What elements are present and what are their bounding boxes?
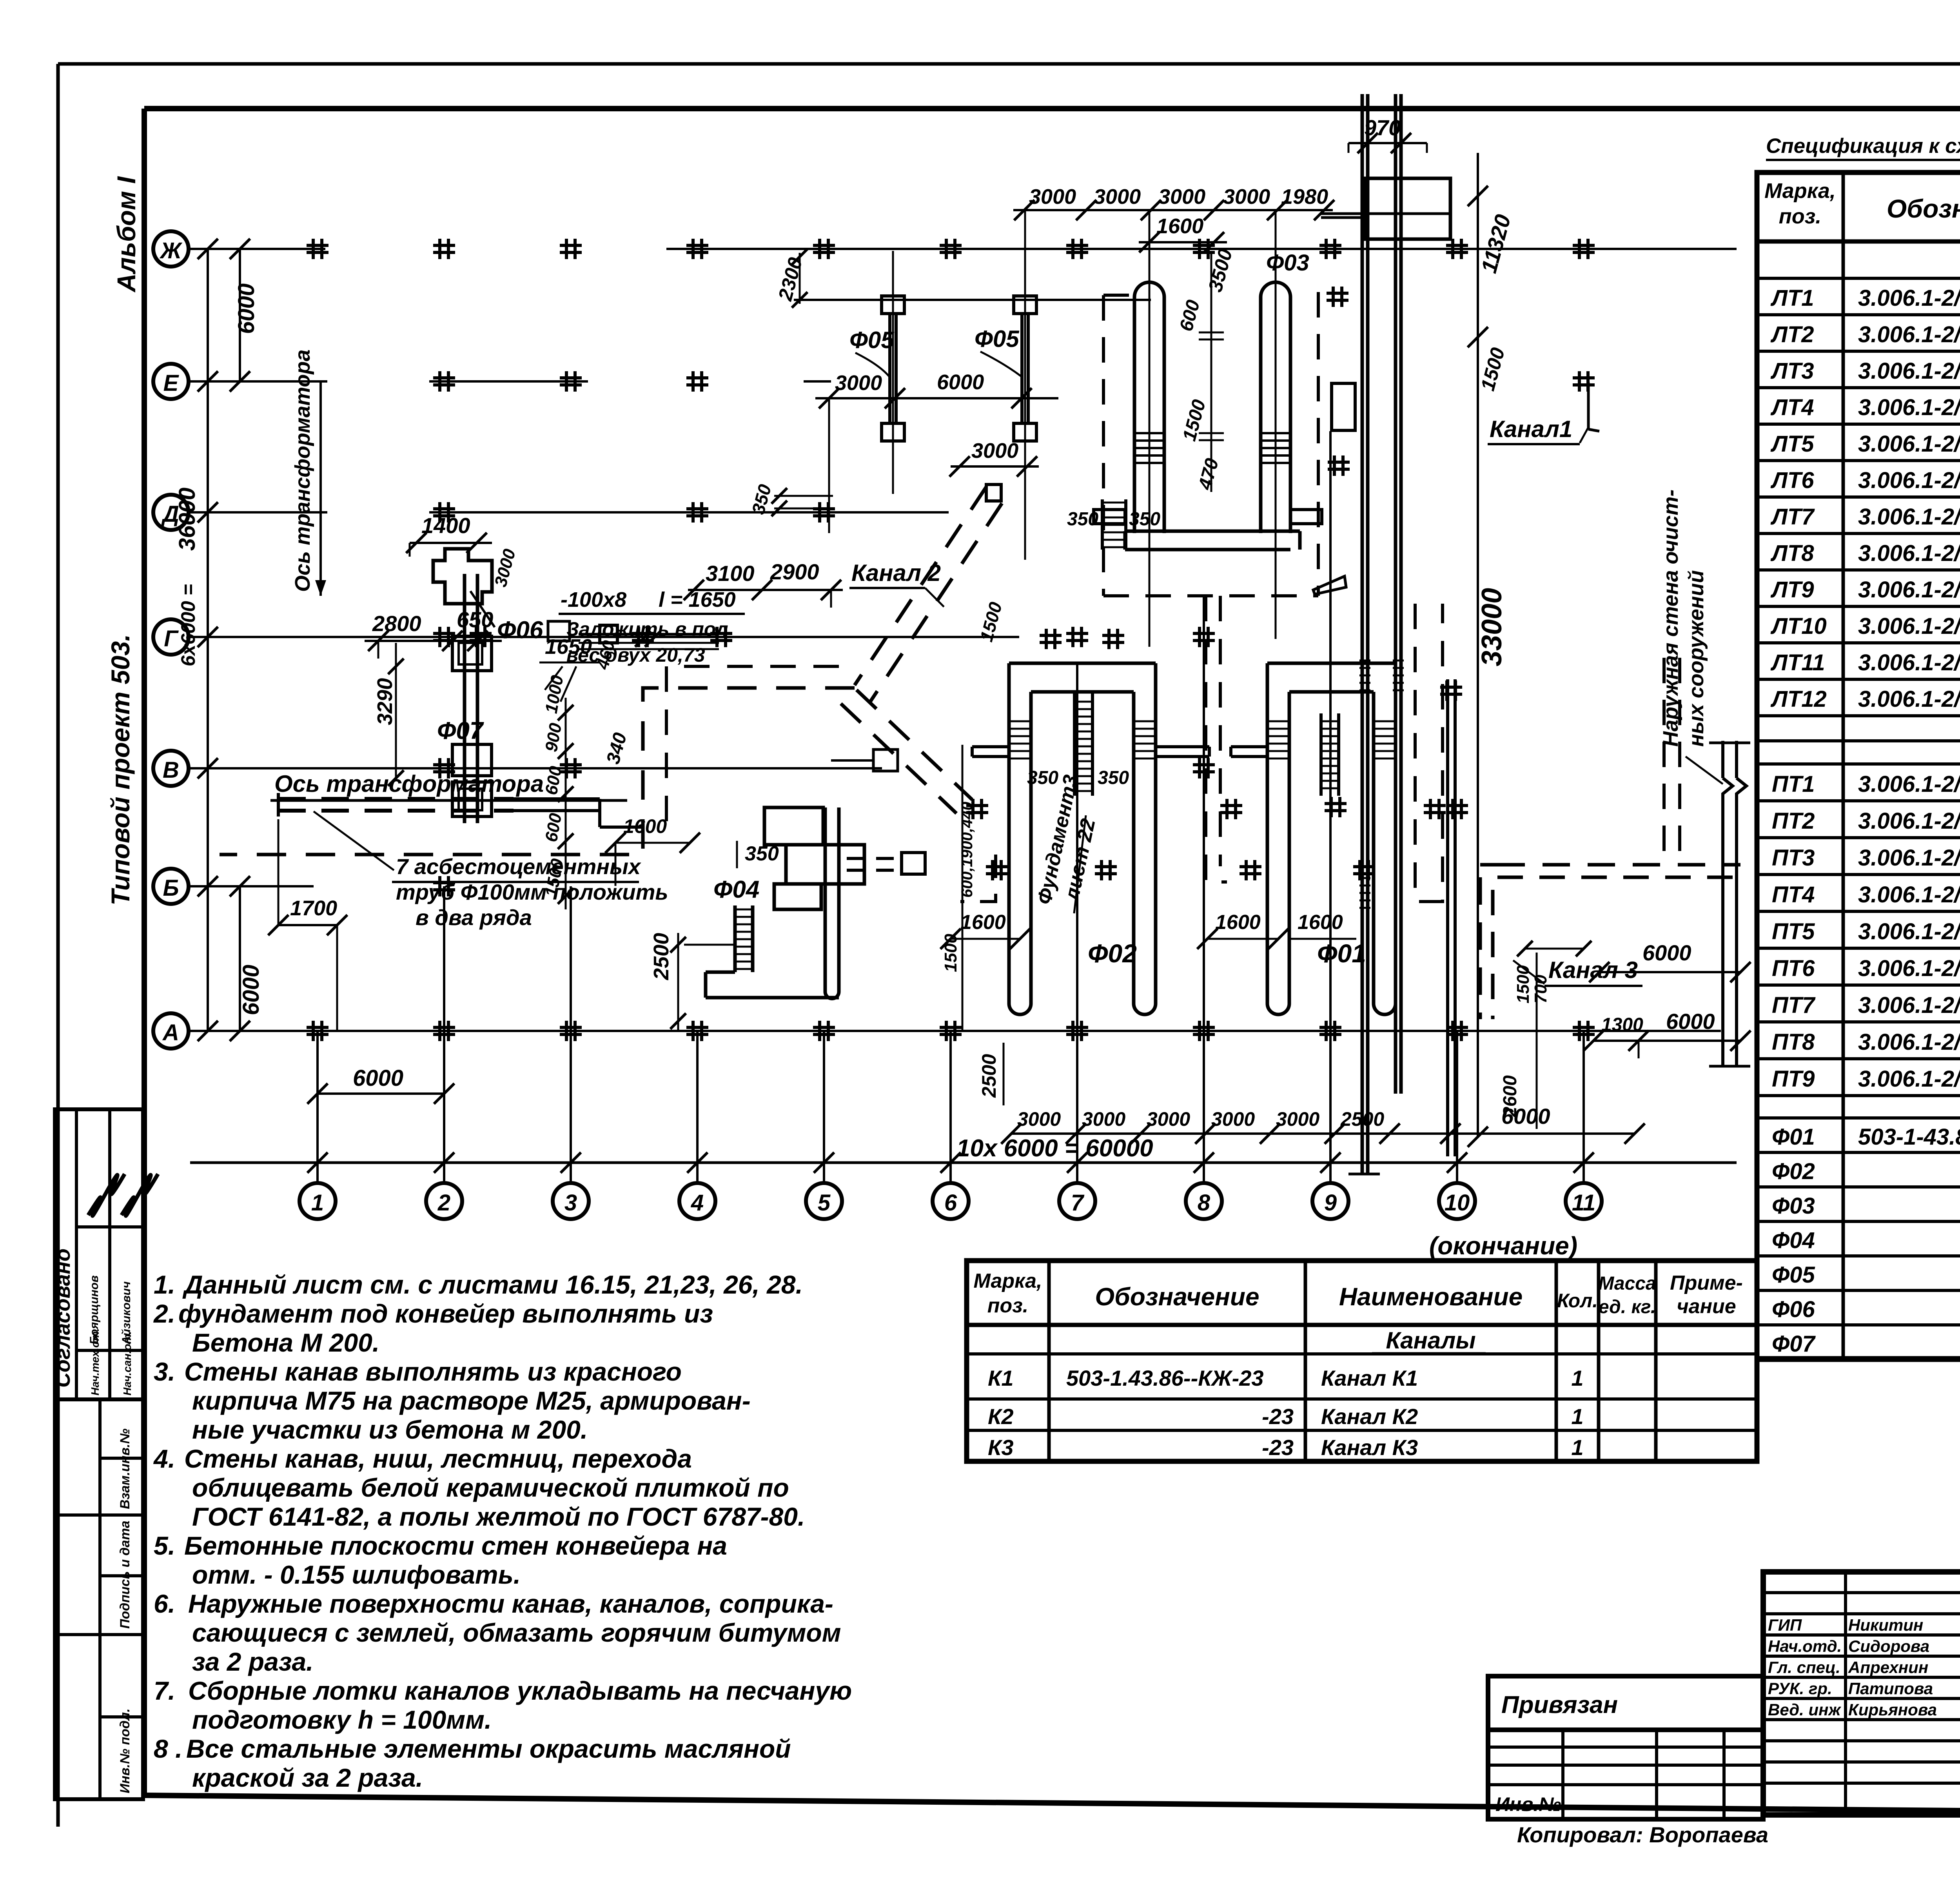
svg-text:поз.: поз. (987, 1294, 1029, 1317)
axis row Ж (153, 231, 189, 267)
svg-text:Каналы: Каналы (1386, 1327, 1475, 1354)
axis column 6 (933, 1183, 969, 1219)
svg-text:350: 350 (1067, 509, 1098, 530)
svg-text:11: 11 (1572, 1190, 1595, 1216)
svg-text:ЛТ3: ЛТ3 (1770, 358, 1814, 384)
svg-text:970: 970 (1364, 115, 1401, 140)
svg-text:Вед. инж: Вед. инж (1768, 1700, 1842, 1719)
outer page border (58, 62, 1960, 66)
svg-text:Б: Б (163, 875, 179, 901)
svg-text:6000: 6000 (1642, 940, 1691, 965)
svg-text:503-1.43.86--КЖ-23: 503-1.43.86--КЖ-23 (1066, 1366, 1264, 1390)
svg-text:Все стальные элементы окрас: Все стальные элементы окрасить масляной (186, 1734, 791, 1763)
row dimension chain (207, 249, 209, 1031)
svg-text:ЛТ4: ЛТ4 (1770, 395, 1814, 420)
svg-text:ПТ4: ПТ4 (1772, 882, 1815, 907)
svg-text:3.006.1-2/82 вып. 1-2: 3.006.1-2/82 вып. 1-2 (1858, 808, 1960, 834)
svg-text:ные участки из бетона м 20: ные участки из бетона м 200. (192, 1415, 588, 1444)
axis column 7 (1059, 1183, 1095, 1219)
dashed channel outline left (Канал2 corridor) (220, 688, 855, 855)
svg-text:Масса: Масса (1598, 1273, 1656, 1294)
foundation Ф05 (1020, 314, 1024, 423)
axis column 5 (806, 1183, 842, 1219)
svg-text:Обозначение: Обозначение (1887, 194, 1960, 223)
svg-text:К3: К3 (988, 1435, 1014, 1460)
svg-text:Никитин: Никитин (1848, 1616, 1923, 1634)
svg-text:3: 3 (564, 1190, 577, 1216)
svg-text:Спецификация к схеме расположе: Спецификация к схеме расположения элемен… (1766, 134, 1960, 158)
svg-text:Ф01: Ф01 (1317, 939, 1366, 968)
svg-text:ЛТ1: ЛТ1 (1770, 285, 1814, 311)
svg-text:3.006.1-2/82 вып. 1-1: 3.006.1-2/82 вып. 1-1 (1858, 358, 1960, 384)
svg-text:ЛТ8: ЛТ8 (1770, 541, 1814, 566)
svg-text:Альбом I: Альбом I (112, 176, 141, 293)
svg-text:10: 10 (1445, 1190, 1470, 1216)
svg-text:-100х8: -100х8 (561, 588, 626, 611)
svg-text:ПТ9: ПТ9 (1772, 1066, 1815, 1092)
svg-text:650: 650 (457, 607, 493, 632)
svg-text:ПТ8: ПТ8 (1772, 1029, 1815, 1055)
svg-text:33000: 33000 (1476, 588, 1508, 666)
svg-text:Инв.№ подл.: Инв.№ подл. (118, 1708, 132, 1793)
svg-text:2500: 2500 (1340, 1108, 1384, 1130)
svg-text:ных сооружений: ных сооружений (1684, 570, 1708, 747)
svg-text:ЛТ7: ЛТ7 (1770, 504, 1815, 530)
dashed rect around Ф02/Ф01 (960, 855, 996, 902)
svg-text:l = 1650: l = 1650 (659, 588, 736, 611)
svg-text:ПТ3: ПТ3 (1772, 845, 1815, 871)
svg-text:Кол.: Кол. (1557, 1290, 1598, 1312)
Канал2 diagonal dashed (855, 487, 986, 685)
svg-text:краской за 2 раза.: краской за 2 раза. (192, 1763, 423, 1792)
foundation Ф04 (764, 807, 823, 845)
svg-text:6000: 6000 (1666, 1009, 1715, 1034)
svg-text:7.: 7. (154, 1676, 175, 1705)
svg-text:Бетона М 200.: Бетона М 200. (192, 1328, 379, 1357)
svg-text:фундамент под конвейер выпо: фундамент под конвейер выполнять из (178, 1299, 713, 1328)
drawing frame (144, 106, 1960, 111)
Ф03 U-bottom (1125, 530, 1300, 533)
svg-text:поз.: поз. (1779, 205, 1822, 228)
svg-text:6000: 6000 (234, 283, 259, 334)
svg-text:36000: 36000 (174, 488, 200, 551)
foundation Ф05 (888, 314, 891, 423)
svg-text:3000: 3000 (1147, 1108, 1190, 1130)
svg-text:ЛТ11: ЛТ11 (1770, 650, 1825, 675)
foundation Ф02 (1007, 692, 1011, 1003)
svg-text:Взам.инв.№: Взам.инв.№ (118, 1428, 132, 1509)
svg-text:1600: 1600 (1298, 911, 1343, 934)
axis row Б (153, 869, 189, 904)
svg-text:Инв.№: Инв.№ (1495, 1793, 1561, 1815)
svg-text:за 2 раза.: за 2 раза. (192, 1647, 314, 1676)
svg-text:Копировал: Воропаева: Копировал: Воропаева (1517, 1822, 1768, 1847)
svg-text:кирпича М75 на растворе М2: кирпича М75 на растворе М25, армирован- (192, 1386, 751, 1415)
svg-text:3000: 3000 (1211, 1108, 1255, 1130)
svg-text:Ф05: Ф05 (975, 326, 1020, 352)
svg-text:Приме-: Приме- (1670, 1272, 1743, 1294)
svg-text:5.: 5. (154, 1531, 175, 1560)
svg-text:350: 350 (1027, 768, 1058, 788)
svg-text:ЛТ6: ЛТ6 (1770, 468, 1814, 493)
svg-text:1: 1 (1571, 1435, 1583, 1460)
svg-text:ПТ1: ПТ1 (1772, 771, 1815, 797)
axis column 4 (679, 1183, 715, 1219)
svg-text:В: В (163, 757, 179, 783)
svg-text:Ф02: Ф02 (1772, 1159, 1815, 1184)
spec table frame (1757, 172, 1960, 1359)
svg-text:Ф01: Ф01 (1772, 1124, 1815, 1150)
svg-text:3.006.1-2/82 вып. 1-2: 3.006.1-2/82 вып. 1-2 (1858, 993, 1960, 1018)
axis column 10 (1439, 1183, 1475, 1219)
svg-text:Бетонные плоскости стен ко: Бетонные плоскости стен конвейера на (184, 1531, 727, 1560)
svg-text:ЛТ10: ЛТ10 (1770, 613, 1827, 639)
svg-text:в два ряда: в два ряда (416, 905, 532, 930)
svg-text:4.: 4. (153, 1444, 175, 1473)
svg-text:Ф03: Ф03 (1772, 1193, 1815, 1219)
svg-text:Ф06: Ф06 (1772, 1297, 1815, 1322)
column markers grid (312, 239, 315, 259)
svg-text:8 .: 8 . (154, 1734, 182, 1763)
svg-text:ЛТ5: ЛТ5 (1770, 431, 1814, 457)
foundation Ф07 (463, 574, 466, 823)
svg-text:3.006.1-2/82 вып. 1-1: 3.006.1-2/82 вып. 1-1 (1858, 504, 1960, 530)
axis row Е (153, 364, 189, 399)
small grid under привязан (1488, 1730, 1763, 1819)
dashed bits right of Ф04 (847, 857, 902, 860)
foundation Ф06 (433, 549, 492, 604)
svg-text:7 асбестоцементных: 7 асбестоцементных (396, 854, 642, 879)
svg-text:6000: 6000 (1501, 1104, 1550, 1129)
svg-text:Патипова: Патипова (1848, 1679, 1933, 1698)
foundation Ф03 (1134, 282, 1164, 297)
svg-text:Е: Е (163, 370, 180, 396)
svg-text:3000: 3000 (1094, 185, 1141, 209)
svg-text:3.006.1-2/82вып. 1-1: 3.006.1-2/82вып. 1-1 (1858, 285, 1960, 311)
svg-text:ПТ7: ПТ7 (1772, 993, 1816, 1018)
svg-text:Айзикович: Айзикович (120, 1281, 133, 1345)
svg-text:Канал1: Канал1 (1490, 416, 1572, 442)
svg-text:Ф06: Ф06 (497, 617, 543, 644)
svg-text:РУК. гр.: РУК. гр. (1768, 1679, 1832, 1698)
svg-text:3.006.1-2/82вып. 1-2: 3.006.1-2/82вып. 1-2 (1858, 771, 1960, 797)
Ф03 dashed enclosure (1102, 295, 1105, 596)
approval stamp column (55, 1109, 143, 1399)
axis column 9 (1312, 1183, 1348, 1219)
svg-text:3000: 3000 (1029, 185, 1076, 209)
svg-text:3.006.1-2/82 вып. 1-2: 3.006.1-2/82 вып. 1-2 (1858, 1029, 1960, 1055)
svg-text:труб Ф100мм положить: труб Ф100мм положить (396, 880, 668, 904)
lower dim chain 3000s (1011, 1132, 1635, 1135)
svg-text:7: 7 (1071, 1190, 1085, 1216)
svg-text:3000: 3000 (1223, 185, 1270, 209)
svg-text:Ф05: Ф05 (1772, 1262, 1815, 1288)
foundation Ф01 (1266, 692, 1269, 1003)
slanted bar lower right of Ф03 (1313, 576, 1346, 594)
svg-text:ПТ6: ПТ6 (1772, 956, 1815, 981)
svg-text:ЛТ2: ЛТ2 (1770, 322, 1814, 347)
svg-text:2500: 2500 (650, 933, 673, 980)
svg-text:3000: 3000 (1082, 1108, 1125, 1130)
svg-text:6000: 6000 (353, 1065, 403, 1091)
svg-text:1600: 1600 (1215, 911, 1261, 934)
svg-text:1.: 1. (154, 1270, 175, 1299)
svg-text:1500: 1500 (1514, 965, 1533, 1003)
axis row Д (153, 495, 189, 530)
svg-text:Нач.отд.: Нач.отд. (1768, 1637, 1842, 1655)
svg-text:ПТ5: ПТ5 (1772, 919, 1815, 944)
horizontal line at Ф05 tops (794, 299, 1151, 301)
svg-text:Ж: Ж (159, 238, 183, 263)
svg-text:3.006.1-2/82 вып. 1-2: 3.006.1-2/82 вып. 1-2 (1858, 1066, 1960, 1092)
svg-text:2: 2 (437, 1190, 450, 1216)
svg-text:К2: К2 (988, 1404, 1014, 1429)
svg-text:Наружные поверхности канав, к: Наружные поверхности канав, каналов, соп… (188, 1589, 833, 1618)
svg-text:-23: -23 (1262, 1404, 1294, 1429)
svg-text:Ф02: Ф02 (1088, 939, 1137, 968)
svg-text:1: 1 (1571, 1366, 1583, 1390)
svg-text:3.006.1-2/82 вып. 1-1: 3.006.1-2/82 вып. 1-1 (1858, 577, 1960, 602)
svg-text:Ф03: Ф03 (1266, 250, 1309, 276)
plate symbol (548, 621, 570, 641)
svg-text:Стены канав, ниш, лестниц,: Стены канав, ниш, лестниц, перехода (184, 1444, 692, 1473)
axis row В (153, 751, 189, 786)
svg-text:Марка,: Марка, (974, 1270, 1042, 1292)
svg-text:503-1-43.86-КЖ-15,1Б: 503-1-43.86-КЖ-15,1Б (1858, 1124, 1960, 1150)
svg-text:3000: 3000 (835, 371, 882, 395)
spec table rows (bottom 3468) (1757, 277, 1960, 280)
svg-text:3.006.1-2/82 вып. 1-2: 3.006.1-2/82 вып. 1-2 (1858, 882, 1960, 907)
svg-text:3.006.1-2/82 вып. 1-1: 3.006.1-2/82 вып. 1-1 (1858, 541, 1960, 566)
svg-text:подготовку h = 100мм.: подготовку h = 100мм. (192, 1705, 492, 1734)
svg-text:3.006.1-2/82 вып. 1-1: 3.006.1-2/82 вып. 1-1 (1858, 322, 1960, 347)
conveyor head box (1364, 178, 1450, 239)
svg-text:1500: 1500 (941, 934, 960, 972)
svg-text:Данный лист см. с листами 16.1: Данный лист см. с листами 16.15, 21,23, … (182, 1270, 803, 1299)
conveyor channel vertical lines (1361, 94, 1364, 1174)
svg-text:6: 6 (944, 1190, 957, 1216)
svg-text:Заложить в пол: Заложить в пол (566, 618, 728, 640)
svg-text:Привязан: Привязан (1501, 1691, 1618, 1718)
axis column 11 (1566, 1183, 1602, 1219)
axis column 1 (299, 1183, 336, 1219)
svg-text:10х 6000 = 60000: 10х 6000 = 60000 (956, 1135, 1153, 1162)
bottom dimension chain 10x6000 (190, 1161, 1737, 1164)
box right of Ф03 (1332, 383, 1355, 430)
svg-text:3000: 3000 (971, 439, 1018, 463)
svg-text:2900: 2900 (770, 559, 819, 584)
svg-text:1980: 1980 (1281, 185, 1328, 209)
svg-text:350: 350 (1129, 509, 1160, 530)
svg-text:сающиеся с землей, обмазать: сающиеся с землей, обмазать горячим биту… (192, 1618, 841, 1647)
svg-text:Ф04: Ф04 (713, 876, 759, 903)
svg-text:Канал К3: Канал К3 (1321, 1435, 1418, 1460)
svg-text:Канал К1: Канал К1 (1321, 1366, 1418, 1390)
канал3 dashed L (1497, 863, 1740, 867)
Ф03 central ladder (1101, 499, 1104, 550)
svg-text:-23: -23 (1262, 1435, 1294, 1460)
svg-text:Наименование: Наименование (1339, 1283, 1523, 1311)
svg-text:Сборные лотки каналов уклады: Сборные лотки каналов укладывать на песч… (188, 1676, 852, 1705)
svg-text:3.006.1-2/82 вып. 1-1: 3.006.1-2/82 вып. 1-1 (1858, 613, 1960, 639)
axis column 8 (1186, 1183, 1222, 1219)
svg-text:1: 1 (1571, 1404, 1583, 1429)
svg-text:ЛТ12: ЛТ12 (1770, 686, 1827, 712)
svg-text:1600: 1600 (960, 911, 1006, 934)
svg-text:3000: 3000 (1017, 1108, 1061, 1130)
svg-text:2.: 2. (153, 1299, 175, 1328)
svg-text:Боярщинов: Боярщинов (88, 1276, 101, 1345)
svg-text:1: 1 (311, 1190, 324, 1216)
svg-text:3.006.1-2/82 вып. 1-2: 3.006.1-2/82 вып. 1-2 (1858, 845, 1960, 871)
svg-text:Апрехнин: Апрехнин (1848, 1658, 1928, 1677)
svg-text:3.006.1-2/82 вып. 1-1: 3.006.1-2/82 вып. 1-1 (1858, 650, 1960, 675)
svg-text:Сидорова: Сидорова (1848, 1637, 1929, 1655)
svg-text:3.006.1-2/82 вып. 1-1: 3.006.1-2/82 вып. 1-1 (1858, 686, 1960, 712)
main title block (1763, 1572, 1960, 1815)
right dim chain 33000 (1477, 153, 1479, 1137)
svg-text:ГОСТ 6141-82, а полы желтой: ГОСТ 6141-82, а полы желтой по ГОСТ 6787… (192, 1502, 805, 1531)
svg-text:Согласовано: Согласовано (51, 1248, 74, 1388)
dim 6000 between cols 1-2 (318, 1092, 444, 1095)
svg-text:9: 9 (1324, 1190, 1337, 1216)
svg-text:Канал 2: Канал 2 (851, 560, 941, 586)
svg-text:3290: 3290 (373, 678, 397, 725)
svg-text:3.006.1-2/82 вып. 1-1: 3.006.1-2/82 вып. 1-1 (1858, 395, 1960, 420)
svg-text:чание: чание (1677, 1295, 1736, 1318)
svg-text:1300: 1300 (1601, 1014, 1643, 1035)
svg-text:3.006.1-2/82 вып. 1-2: 3.006.1-2/82 вып. 1-2 (1858, 919, 1960, 944)
svg-text:3.: 3. (154, 1357, 175, 1386)
svg-text:6000: 6000 (238, 965, 264, 1015)
svg-text:3000: 3000 (1276, 1108, 1319, 1130)
Ф03 axes (1149, 210, 1151, 647)
svg-text:1700: 1700 (290, 896, 337, 920)
svg-text:1600: 1600 (1156, 214, 1203, 238)
svg-text:Ось трансформатора: Ось трансформатора (274, 771, 544, 797)
Ф03 side tabs (1094, 510, 1125, 524)
svg-text:Обозначение: Обозначение (1095, 1283, 1259, 1311)
привязан box (1488, 1676, 1763, 1730)
svg-text:Гл. спец.: Гл. спец. (1768, 1658, 1840, 1677)
svg-text:облицевать белой керамическо: облицевать белой керамической плиткой по (192, 1473, 789, 1502)
svg-text:6х6000 =: 6х6000 = (177, 584, 199, 666)
svg-text:6000: 6000 (937, 370, 984, 394)
asbestos pipes dashed band (278, 797, 514, 801)
svg-text:Ф07: Ф07 (437, 717, 484, 744)
svg-text:3.006.1-2/82 вып. 1-1: 3.006.1-2/82 вып. 1-1 (1858, 431, 1960, 457)
svg-text:1400: 1400 (421, 513, 470, 538)
svg-text:(окончание): (окончание) (1429, 1232, 1577, 1260)
svg-text:Стены канав выполнять из кр: Стены канав выполнять из красного (184, 1357, 682, 1386)
svg-text:3.006.1-2/82 вып. 1-1: 3.006.1-2/82 вып. 1-1 (1858, 468, 1960, 493)
svg-text:3.006.1-2/82 вып. 1-2: 3.006.1-2/82 вып. 1-2 (1858, 956, 1960, 981)
svg-text:350: 350 (1098, 768, 1129, 788)
svg-text:отм. - 0.155 шлифовать.: отм. - 0.155 шлифовать. (192, 1560, 521, 1589)
axis row А (153, 1013, 189, 1049)
svg-text:Ф07: Ф07 (1772, 1331, 1816, 1357)
svg-text:ЛТ9: ЛТ9 (1770, 577, 1814, 602)
svg-text:Подпись и дата: Подпись и дата (118, 1521, 132, 1629)
svg-text:6.: 6. (154, 1589, 175, 1618)
axis column 3 (553, 1183, 589, 1219)
svg-text:А: А (162, 1020, 179, 1045)
svg-text:2500: 2500 (978, 1054, 1000, 1098)
svg-text:Кирьянова: Кирьянова (1848, 1700, 1937, 1719)
svg-text:Канал К2: Канал К2 (1321, 1404, 1418, 1429)
svg-text:4: 4 (691, 1190, 704, 1216)
svg-text:8: 8 (1198, 1190, 1210, 1216)
Ф03 rotated dims (1210, 251, 1212, 492)
svg-text:600,1900,440: 600,1900,440 (958, 802, 976, 898)
axis row Г (153, 619, 189, 655)
inventory stamp column (55, 1399, 143, 1799)
svg-text:700: 700 (1531, 974, 1550, 1003)
wall line with break (1721, 741, 1724, 778)
svg-text:Г: Г (164, 626, 179, 651)
svg-text:ГИП: ГИП (1768, 1616, 1802, 1634)
svg-text:Марка,: Марка, (1764, 179, 1836, 203)
svg-text:Ф04: Ф04 (1772, 1228, 1815, 1253)
svg-text:Типовой проект 503.: Типовой проект 503. (106, 634, 135, 905)
top dim chain 3000s/1980 (1013, 209, 1333, 211)
svg-text:ед. кг.: ед. кг. (1599, 1297, 1656, 1317)
svg-text:Ось трансформатора: Ось трансформатора (291, 350, 314, 592)
svg-text:ПТ2: ПТ2 (1772, 808, 1815, 834)
svg-text:2800: 2800 (372, 611, 421, 636)
small fixtures near Ф07 row Г (600, 625, 617, 643)
svg-text:Ф05: Ф05 (849, 327, 895, 353)
svg-text:К1: К1 (988, 1366, 1014, 1390)
svg-text:3000: 3000 (1158, 185, 1205, 209)
svg-text:5: 5 (818, 1190, 831, 1216)
building wall double line near col10 (1446, 679, 1449, 1156)
svg-text:3100: 3100 (706, 561, 755, 586)
axis column 2 (426, 1183, 462, 1219)
